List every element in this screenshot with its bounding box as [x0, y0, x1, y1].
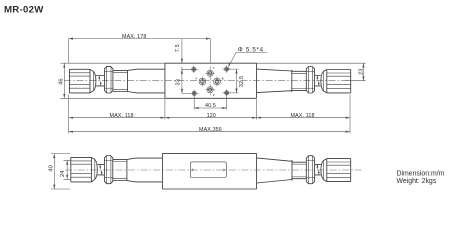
dimension MAX. 118 left — [69, 95, 165, 134]
svg-text:B: B — [222, 76, 224, 80]
name plate — [190, 162, 226, 178]
small arrows on left neck — [98, 76, 101, 86]
dimension 24 (bottom view, rotated) — [64, 160, 71, 179]
svg-text:Weight: 2kgs: Weight: 2kgs — [397, 178, 437, 185]
port centerline vertical in block — [209, 66, 211, 96]
small arrows on right neck — [316, 76, 319, 86]
left threaded section — [113, 70, 128, 91]
port left (A) — [199, 77, 206, 87]
mounting hole bottom-left — [190, 90, 199, 97]
svg-text:T: T — [213, 66, 215, 70]
bottom view block — [162, 154, 256, 189]
svg-text:MR-02W: MR-02W — [4, 5, 44, 16]
svg-text:P: P — [213, 93, 215, 97]
left knob (knurled) — [69, 69, 96, 93]
port right (B) — [214, 77, 221, 87]
bottom view right neck — [315, 164, 321, 175]
bottom view small arrows left neck — [99, 165, 102, 175]
bottom view left body — [127, 158, 162, 182]
bottom view left knob — [71, 157, 98, 182]
svg-text:A: A — [195, 76, 197, 80]
mounting hole top-left — [190, 66, 199, 73]
port bottom (P) — [206, 87, 215, 93]
bottom view right thread — [292, 162, 306, 179]
svg-text:MAX. 118: MAX. 118 — [110, 113, 134, 119]
left body chamfer + cylinder — [128, 69, 165, 93]
bottom view left thread — [113, 159, 127, 180]
svg-text:33: 33 — [175, 79, 181, 86]
svg-text:Dimension:m/m: Dimension:m/m — [397, 171, 445, 178]
dimension MAX. 118 right — [257, 95, 351, 134]
port top (T) — [206, 70, 215, 76]
bottom view right cone — [257, 158, 292, 183]
dimension 40.5 — [194, 95, 227, 110]
bottom view right knob — [321, 159, 351, 182]
left lock nut — [105, 66, 113, 93]
svg-text:40.5: 40.5 — [205, 103, 216, 109]
right knob (knurled) — [321, 70, 351, 93]
bottom view small arrows right neck — [316, 165, 319, 175]
right threaded section — [292, 71, 307, 90]
dimension 40 (bottom view, rotated) — [51, 154, 70, 189]
footer text — [397, 171, 445, 186]
mounting hole top-right — [222, 65, 231, 72]
svg-text:7.5: 7.5 — [175, 44, 181, 52]
centerline horizontal — [64, 80, 354, 82]
right body cone — [257, 69, 292, 93]
svg-text:46: 46 — [58, 78, 64, 85]
bottom view left nut — [104, 156, 112, 184]
centerline horizontal (bottom view) — [65, 169, 362, 171]
svg-text:MAX. 118: MAX. 118 — [291, 113, 315, 119]
svg-text:40: 40 — [49, 165, 55, 172]
bottom view right nut — [306, 156, 314, 184]
dimension 32.5 (rotated) — [229, 69, 239, 93]
dimension 120 — [165, 99, 257, 119]
bottom view left neck — [97, 164, 104, 175]
mounting hole bottom-right — [222, 89, 231, 96]
dimension MAX. 178 — [69, 38, 211, 64]
right lock nut — [306, 67, 314, 94]
svg-text:MAX. 178: MAX. 178 — [122, 34, 146, 40]
svg-text:MAX.356: MAX.356 — [199, 127, 222, 133]
dimension MAX. 356 — [69, 131, 350, 133]
tiny port letters — [195, 66, 223, 97]
left neck/shaft — [96, 76, 105, 86]
dimension 23 (right, rotated) — [257, 63, 366, 80]
svg-text:120: 120 — [207, 113, 216, 119]
right neck/shaft — [315, 76, 321, 86]
svg-text:32.5: 32.5 — [239, 76, 245, 87]
mounting block (top view) — [165, 63, 257, 98]
dimension 7.5 + 33 vertical line — [181, 39, 191, 93]
dimension 46 (left, rotated) — [61, 63, 165, 98]
svg-text:23: 23 — [358, 68, 364, 75]
svg-text:24: 24 — [60, 170, 66, 177]
